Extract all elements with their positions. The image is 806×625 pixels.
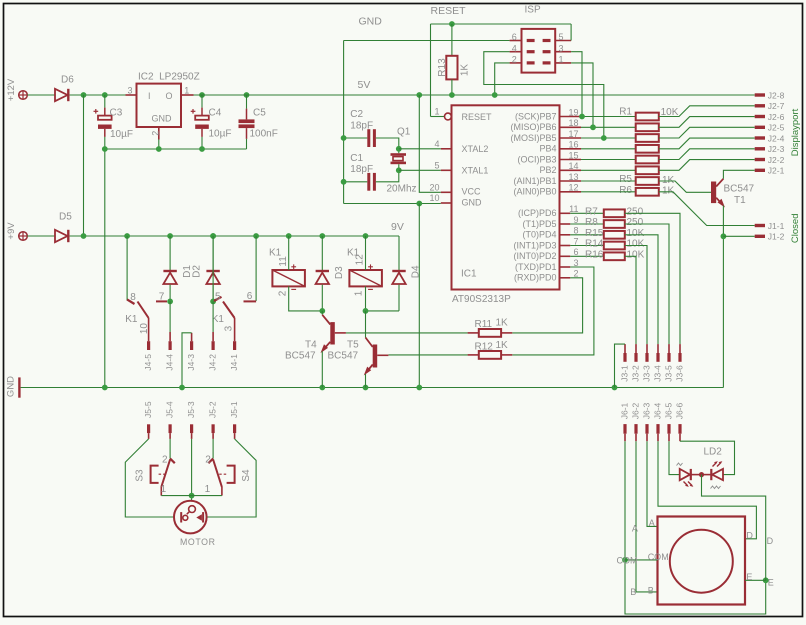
svg-text:A: A xyxy=(632,524,638,534)
microcontroller IC1 AT90S2313P xyxy=(452,105,560,289)
svg-text:14: 14 xyxy=(568,161,578,171)
LED LD2 left xyxy=(680,469,690,480)
svg-text:9: 9 xyxy=(573,215,578,225)
svg-text:1K: 1K xyxy=(496,318,509,329)
relay coil K1 (11/2) xyxy=(272,270,305,286)
svg-text:8: 8 xyxy=(573,226,578,236)
IC2 pin 2 xyxy=(158,127,160,140)
node MISO junction xyxy=(590,124,596,130)
svg-text:J5-1: J5-1 xyxy=(229,401,239,418)
svg-text:2: 2 xyxy=(162,454,168,465)
svg-text:C4: C4 xyxy=(209,107,222,118)
svg-text:J5-2: J5-2 xyxy=(208,401,218,418)
resistor R1 element row pin14 xyxy=(581,169,636,171)
pad J6-5 xyxy=(667,424,670,434)
node MOSI junction xyxy=(601,135,607,141)
pad J5-1 xyxy=(233,424,236,433)
svg-text:J1-2: J1-2 xyxy=(768,232,785,242)
svg-text:GND: GND xyxy=(152,114,173,124)
wire R12 to T5 base xyxy=(388,354,467,356)
transistor T5 BC547 xyxy=(365,311,367,338)
IC1 pin 4 XTAL2 xyxy=(441,148,452,150)
svg-text:J2-4: J2-4 xyxy=(768,133,785,143)
svg-text:J2-1: J2-1 xyxy=(768,166,785,176)
svg-text:6: 6 xyxy=(512,32,517,42)
svg-text:R5: R5 xyxy=(619,174,632,185)
svg-text:6: 6 xyxy=(247,291,253,302)
svg-text:K1: K1 xyxy=(125,314,138,325)
wire R11 to T4 base xyxy=(346,332,468,334)
svg-text:A: A xyxy=(649,518,655,528)
svg-text:(AIN1)PB1: (AIN1)PB1 xyxy=(513,176,556,186)
svg-text:3: 3 xyxy=(573,258,578,268)
wire GND down to GND rail xyxy=(418,204,420,388)
GND rail xyxy=(21,387,724,389)
wire J1-2 xyxy=(723,235,754,237)
IC1 pin 11 (ICP)PD6 xyxy=(560,212,571,214)
pad J1-2 xyxy=(755,235,765,238)
svg-text:5: 5 xyxy=(215,292,221,303)
svg-text:B: B xyxy=(630,587,636,597)
svg-text:10: 10 xyxy=(139,323,150,335)
wire TXD to R12 xyxy=(512,267,594,355)
diode D5 xyxy=(55,230,68,242)
switch S4 xyxy=(208,459,213,464)
wire IC2 pin2 to gnd rail xyxy=(158,140,160,150)
wire to J2-7 xyxy=(659,106,755,117)
IC1 pin 13 (AIN1)PB1 xyxy=(560,180,582,182)
svg-text:J6-6: J6-6 xyxy=(675,402,685,419)
wire XTAL1 xyxy=(399,169,441,171)
svg-text:J6-1: J6-1 xyxy=(620,402,630,419)
wire ISP pin1 to MISO xyxy=(571,63,593,127)
pad J4-2 xyxy=(212,341,215,350)
svg-text:2: 2 xyxy=(512,55,517,65)
svg-text:10K: 10K xyxy=(627,228,645,239)
wire J6-3 to A xyxy=(647,441,658,526)
svg-text:J5-3: J5-3 xyxy=(186,401,196,418)
wire J6-5 to LD2 xyxy=(669,441,680,474)
wire to J2-4 xyxy=(659,138,755,149)
svg-text:16: 16 xyxy=(568,140,578,150)
wire +12V to D6 xyxy=(27,94,55,96)
svg-text:XTAL2: XTAL2 xyxy=(462,144,489,154)
svg-text:13: 13 xyxy=(568,172,578,182)
resistor R1 element row pin15 xyxy=(581,159,636,161)
svg-text:J4-1: J4-1 xyxy=(229,354,239,371)
svg-text:D2: D2 xyxy=(192,265,203,278)
pad J5-5 xyxy=(147,424,150,433)
transistor T4 BC547 xyxy=(321,311,323,315)
wire GND net vertical xyxy=(343,41,345,204)
pad J4-4 xyxy=(169,341,172,350)
wire to J2-6 xyxy=(659,117,755,128)
svg-text:RESET: RESET xyxy=(462,112,493,122)
pad J6-1 xyxy=(623,424,626,434)
svg-text:9V: 9V xyxy=(391,221,404,233)
svg-text:R1: R1 xyxy=(619,106,632,117)
svg-text:J3-1: J3-1 xyxy=(620,365,630,382)
svg-text:R15: R15 xyxy=(585,228,604,239)
wire GND to IC1 pin10 xyxy=(344,203,441,205)
pad J3-2 xyxy=(634,353,637,362)
svg-text:D3: D3 xyxy=(334,266,345,279)
pad J4-5 xyxy=(147,341,150,350)
IC1 pin 9 (T1)PD5 xyxy=(560,223,571,225)
wire J4-3 to GND xyxy=(191,333,193,341)
svg-text:IC1: IC1 xyxy=(461,269,477,280)
svg-text:C2: C2 xyxy=(350,109,363,120)
svg-text:R14: R14 xyxy=(585,239,604,250)
svg-text:LD2: LD2 xyxy=(704,446,723,457)
svg-text:O: O xyxy=(166,91,173,101)
svg-text:2: 2 xyxy=(151,131,161,136)
capacitor C4 10uF xyxy=(199,92,205,98)
pad J2-2 xyxy=(755,158,765,161)
svg-text:D: D xyxy=(746,531,753,541)
pad J6-3 xyxy=(645,424,648,434)
svg-text:1K: 1K xyxy=(460,64,471,77)
IC1 pin 2 (RXD)PD0 xyxy=(560,277,571,279)
relay contact K1 pin6 xyxy=(253,233,259,239)
node LD2 common xyxy=(699,472,704,477)
wire J6-6 to LD2 xyxy=(680,441,735,474)
wire RESET net xyxy=(431,23,572,25)
diode D2 xyxy=(210,233,216,239)
wire J5-5 to motor left xyxy=(125,439,174,517)
node C3 top xyxy=(102,92,108,98)
svg-text:Displayport: Displayport xyxy=(790,108,801,156)
wire 12V drop to 9V rail xyxy=(83,95,85,236)
transistor T1 BC547 xyxy=(711,182,716,204)
svg-text:R8: R8 xyxy=(585,217,598,228)
wire D2 to J4-2 xyxy=(212,301,214,332)
svg-text:1: 1 xyxy=(184,86,189,96)
wire coil K1-2 bottom xyxy=(366,286,400,311)
IC1 pin 6 (INT0)PD2 xyxy=(560,255,571,257)
capacitor C3 10uF xyxy=(104,95,106,108)
svg-text:(SCK)PB7: (SCK)PB7 xyxy=(515,111,557,121)
svg-text:1: 1 xyxy=(353,290,364,296)
svg-text:J4-5: J4-5 xyxy=(143,354,153,371)
node SCK junction xyxy=(579,114,585,120)
pad J6-2 xyxy=(634,424,637,434)
resistor R1 element row pin17 xyxy=(581,137,636,139)
resistor R16 10K xyxy=(570,255,604,257)
svg-text:19: 19 xyxy=(568,107,578,117)
svg-text:ISP: ISP xyxy=(525,4,541,15)
svg-text:S4: S4 xyxy=(241,469,252,482)
svg-text:100nF: 100nF xyxy=(250,129,278,140)
svg-text:1: 1 xyxy=(205,484,211,495)
resistor R8 250 xyxy=(570,223,604,225)
pad J3-6 xyxy=(678,353,681,362)
svg-text:1: 1 xyxy=(161,484,167,495)
9V rail xyxy=(70,235,399,237)
IC1 pin 7 (INT1)PD3 xyxy=(560,245,571,247)
resistor R15 10K xyxy=(570,234,604,236)
svg-text:10: 10 xyxy=(429,193,439,203)
pad J2-1 xyxy=(755,169,765,172)
wire R6 to J1-1 xyxy=(659,192,755,226)
svg-text:J4-3: J4-3 xyxy=(186,354,196,371)
svg-text:17: 17 xyxy=(568,129,578,139)
svg-text:S3: S3 xyxy=(134,469,145,482)
ISP pin 3 xyxy=(555,51,571,53)
pad +12V xyxy=(19,91,28,100)
IC1 pin 8 (T0)PD4 xyxy=(560,234,571,236)
wire XTAL2 xyxy=(399,148,441,150)
svg-text:T4: T4 xyxy=(305,339,317,350)
resistor R7 250 xyxy=(570,212,604,214)
svg-text:J4-4: J4-4 xyxy=(165,354,175,371)
svg-text:12: 12 xyxy=(355,254,366,266)
svg-text:3: 3 xyxy=(558,43,563,53)
motor M xyxy=(174,501,207,534)
wire to J2-3 xyxy=(659,149,755,160)
wire J6-1 to COM and E xyxy=(625,441,766,614)
svg-text:J3-2: J3-2 xyxy=(631,365,641,382)
svg-text:BC547: BC547 xyxy=(285,351,316,362)
svg-text:3: 3 xyxy=(127,86,132,96)
svg-text:12: 12 xyxy=(568,183,578,193)
wire ISP pin4 to MOSI xyxy=(484,52,604,138)
diode D3 xyxy=(319,233,325,239)
svg-text:R7: R7 xyxy=(585,206,598,217)
svg-text:J6-4: J6-4 xyxy=(653,402,663,419)
svg-text:R16: R16 xyxy=(585,249,604,260)
pad J2-8 xyxy=(755,93,765,96)
svg-text:1K: 1K xyxy=(662,175,675,186)
IC1 pin 1 RESET xyxy=(445,113,452,120)
svg-text:20Mhz: 20Mhz xyxy=(387,184,417,195)
svg-text:COM: COM xyxy=(617,556,638,566)
svg-text:11: 11 xyxy=(569,204,578,214)
ISP pin 4 xyxy=(510,51,522,53)
pad J2-7 xyxy=(755,104,765,107)
svg-text:250: 250 xyxy=(627,217,644,228)
svg-text:J3-3: J3-3 xyxy=(642,365,652,382)
switch S3 xyxy=(170,459,175,464)
wire R5 to T1 base xyxy=(659,181,711,192)
pad J6-4 xyxy=(656,424,659,434)
wire RXD to R11 xyxy=(512,278,582,333)
ground symbol xyxy=(18,377,20,397)
wire 5V rail to J2-8 xyxy=(194,94,755,96)
diode D1 xyxy=(167,233,173,239)
pad J2-3 xyxy=(755,147,765,150)
svg-text:(MOSI)PB5: (MOSI)PB5 xyxy=(510,133,556,143)
svg-text:J2-7: J2-7 xyxy=(768,101,785,111)
wire J5-1 to motor right xyxy=(207,439,257,517)
wire GND net to ISP pin6 xyxy=(344,40,510,42)
svg-text:1K: 1K xyxy=(496,340,509,351)
wire J3-1 to GND xyxy=(615,344,626,387)
connector ISP header xyxy=(522,29,556,73)
pad J3-3 xyxy=(645,353,648,362)
IC1 pin 12 (AIN0)PB0 xyxy=(560,191,582,193)
wire R14 to J3 column xyxy=(625,246,647,345)
svg-text:J3-4: J3-4 xyxy=(653,365,663,382)
svg-text:10µF: 10µF xyxy=(110,129,133,140)
resistor R14 10K xyxy=(570,245,604,247)
resistor R13 1K xyxy=(451,24,453,56)
resistor R1 element row pin18 xyxy=(581,126,636,128)
diode D6 xyxy=(55,89,68,101)
svg-text:J6-3: J6-3 xyxy=(642,402,652,419)
svg-text:D: D xyxy=(767,536,774,546)
svg-text:D6: D6 xyxy=(61,75,74,86)
capacitor C5 100nF xyxy=(244,92,250,98)
wire D6 to IC2 pin3 xyxy=(70,94,126,96)
IC1 pin 17 (MOSI)PB5 xyxy=(560,137,582,139)
svg-text:GND: GND xyxy=(6,376,17,397)
IC2 pin 3 xyxy=(126,94,137,96)
svg-text:(MISO)PB6: (MISO)PB6 xyxy=(510,122,556,132)
svg-text:(INT1)PD3: (INT1)PD3 xyxy=(513,240,556,250)
ISP pin 1 xyxy=(555,62,571,64)
svg-text:R13: R13 xyxy=(437,58,448,77)
pad J2-5 xyxy=(755,126,765,129)
ISP pin 6 xyxy=(510,40,522,42)
gnd rail under caps xyxy=(105,148,247,150)
svg-text:RESET: RESET xyxy=(431,5,467,17)
IC1 pin 18 (MISO)PB6 xyxy=(560,126,582,128)
wire R15 to J3 column xyxy=(625,235,658,344)
IC1 pin 16 PB4 xyxy=(560,148,582,150)
pad J3-1 xyxy=(623,353,626,362)
svg-text:(TXD)PD1: (TXD)PD1 xyxy=(515,262,557,272)
wire J5-2 to S4 xyxy=(212,439,214,459)
svg-text:+12V: +12V xyxy=(6,78,17,101)
IC1 pin 19 (SCK)PB7 xyxy=(560,116,582,118)
svg-text:J2-5: J2-5 xyxy=(768,123,785,133)
svg-text:C1: C1 xyxy=(350,153,363,164)
resistor R1 element row pin16 xyxy=(581,148,636,150)
wire J6-4 to D xyxy=(658,441,756,539)
svg-text:J2-2: J2-2 xyxy=(768,155,785,165)
pad J5-4 xyxy=(169,424,172,433)
wire to J2-2 xyxy=(659,160,755,171)
svg-text:18: 18 xyxy=(568,118,578,128)
svg-text:(OCI)PB3: (OCI)PB3 xyxy=(517,154,556,164)
svg-text:GND: GND xyxy=(462,198,483,208)
svg-text:(INT0)PD2: (INT0)PD2 xyxy=(513,251,556,261)
wire C3 gnd column to GND rail xyxy=(104,149,106,388)
svg-text:1: 1 xyxy=(434,107,439,117)
pad J2-4 xyxy=(755,136,765,139)
svg-text:E: E xyxy=(746,572,752,582)
svg-text:+9V: +9V xyxy=(6,222,17,240)
IC1 pin 10 GND xyxy=(441,202,452,204)
svg-text:J1-1: J1-1 xyxy=(768,221,785,231)
wire coil K1 bottom xyxy=(289,286,323,311)
IC1 pin 20 VCC xyxy=(441,191,452,193)
svg-text:T5: T5 xyxy=(347,339,359,350)
svg-text:20: 20 xyxy=(429,182,439,192)
ISP pin 5 xyxy=(555,40,571,42)
svg-text:IC2 LP2950Z: IC2 LP2950Z xyxy=(138,72,200,83)
svg-text:J6-2: J6-2 xyxy=(631,402,641,419)
pad J3-5 xyxy=(667,353,670,362)
svg-text:PB4: PB4 xyxy=(539,144,556,154)
wire J5-4 to S3 xyxy=(169,439,171,459)
IC1 pin 3 (TXD)PD1 xyxy=(560,266,571,268)
svg-text:1K: 1K xyxy=(662,186,675,197)
relay switch arm K1 pin3 xyxy=(223,302,235,319)
pad J5-2 xyxy=(212,424,215,433)
svg-text:BC547: BC547 xyxy=(328,351,359,362)
svg-text:D5: D5 xyxy=(59,212,72,223)
relay contact K1 pin8 xyxy=(124,233,130,239)
svg-text:10µF: 10µF xyxy=(209,129,232,140)
wire D1 to J4-4 xyxy=(169,301,171,332)
node 12V-9V drop xyxy=(81,92,87,98)
wire T1 emitter to GND rail xyxy=(722,206,724,388)
node J1-2 xyxy=(721,233,727,239)
pin COM xyxy=(625,559,658,561)
svg-text:7: 7 xyxy=(573,236,578,246)
pad J2-6 xyxy=(755,115,765,118)
svg-text:BC547: BC547 xyxy=(724,184,755,195)
relay contact K1 pin7 xyxy=(156,300,167,302)
pad J4-3 xyxy=(190,341,193,350)
svg-text:J2-6: J2-6 xyxy=(768,112,785,122)
svg-text:5V: 5V xyxy=(358,79,371,91)
svg-text:GND: GND xyxy=(359,16,383,28)
wire RESET to ISP pin5 xyxy=(570,24,572,41)
pad J6-6 xyxy=(678,424,681,434)
resistor R1 element row pin19 xyxy=(581,116,636,118)
svg-text:E: E xyxy=(768,578,774,588)
svg-text:Closed: Closed xyxy=(790,214,801,244)
svg-text:(RXD)PD0: (RXD)PD0 xyxy=(514,273,557,283)
svg-text:11: 11 xyxy=(278,256,289,267)
svg-text:R6: R6 xyxy=(619,185,632,196)
svg-text:COM: COM xyxy=(648,552,669,562)
wire ISP pin2 to 5V xyxy=(495,63,510,95)
pad +9V xyxy=(19,232,28,241)
wire ISP pin3 to SCK xyxy=(571,52,582,117)
svg-text:10K: 10K xyxy=(627,239,645,250)
svg-text:T1: T1 xyxy=(734,195,746,206)
pad J5-3 xyxy=(190,424,193,433)
svg-text:250: 250 xyxy=(627,206,644,217)
svg-text:6: 6 xyxy=(573,247,578,257)
wire +9V to D5 xyxy=(27,235,55,237)
svg-text:J6-5: J6-5 xyxy=(664,402,674,419)
IC1 pin 14 PB2 xyxy=(560,169,582,171)
wire J5-3 to motor top xyxy=(191,439,193,501)
wire T1 collector to J2-1 xyxy=(723,170,754,178)
voltage regulator IC2 LP2950Z xyxy=(137,84,182,127)
svg-text:J5-4: J5-4 xyxy=(165,401,175,418)
svg-text:B: B xyxy=(648,585,654,595)
wire LD2 common to E xyxy=(702,475,766,581)
IC2 pin 1 xyxy=(181,94,194,96)
ISP pin 2 xyxy=(510,62,522,64)
svg-text:J3-6: J3-6 xyxy=(675,365,685,382)
svg-text:2: 2 xyxy=(573,269,578,279)
svg-text:2: 2 xyxy=(277,290,288,296)
component box with circle xyxy=(658,517,746,605)
svg-text:J2-3: J2-3 xyxy=(768,144,785,154)
svg-text:MOTOR: MOTOR xyxy=(180,537,216,547)
svg-text:(ICP)PD6: (ICP)PD6 xyxy=(518,208,557,218)
IC1 pin 15 (OCI)PB3 xyxy=(560,159,582,161)
relay switch arm K1 pin10 xyxy=(138,302,149,319)
IC1 pin 5 XTAL1 xyxy=(441,169,452,171)
